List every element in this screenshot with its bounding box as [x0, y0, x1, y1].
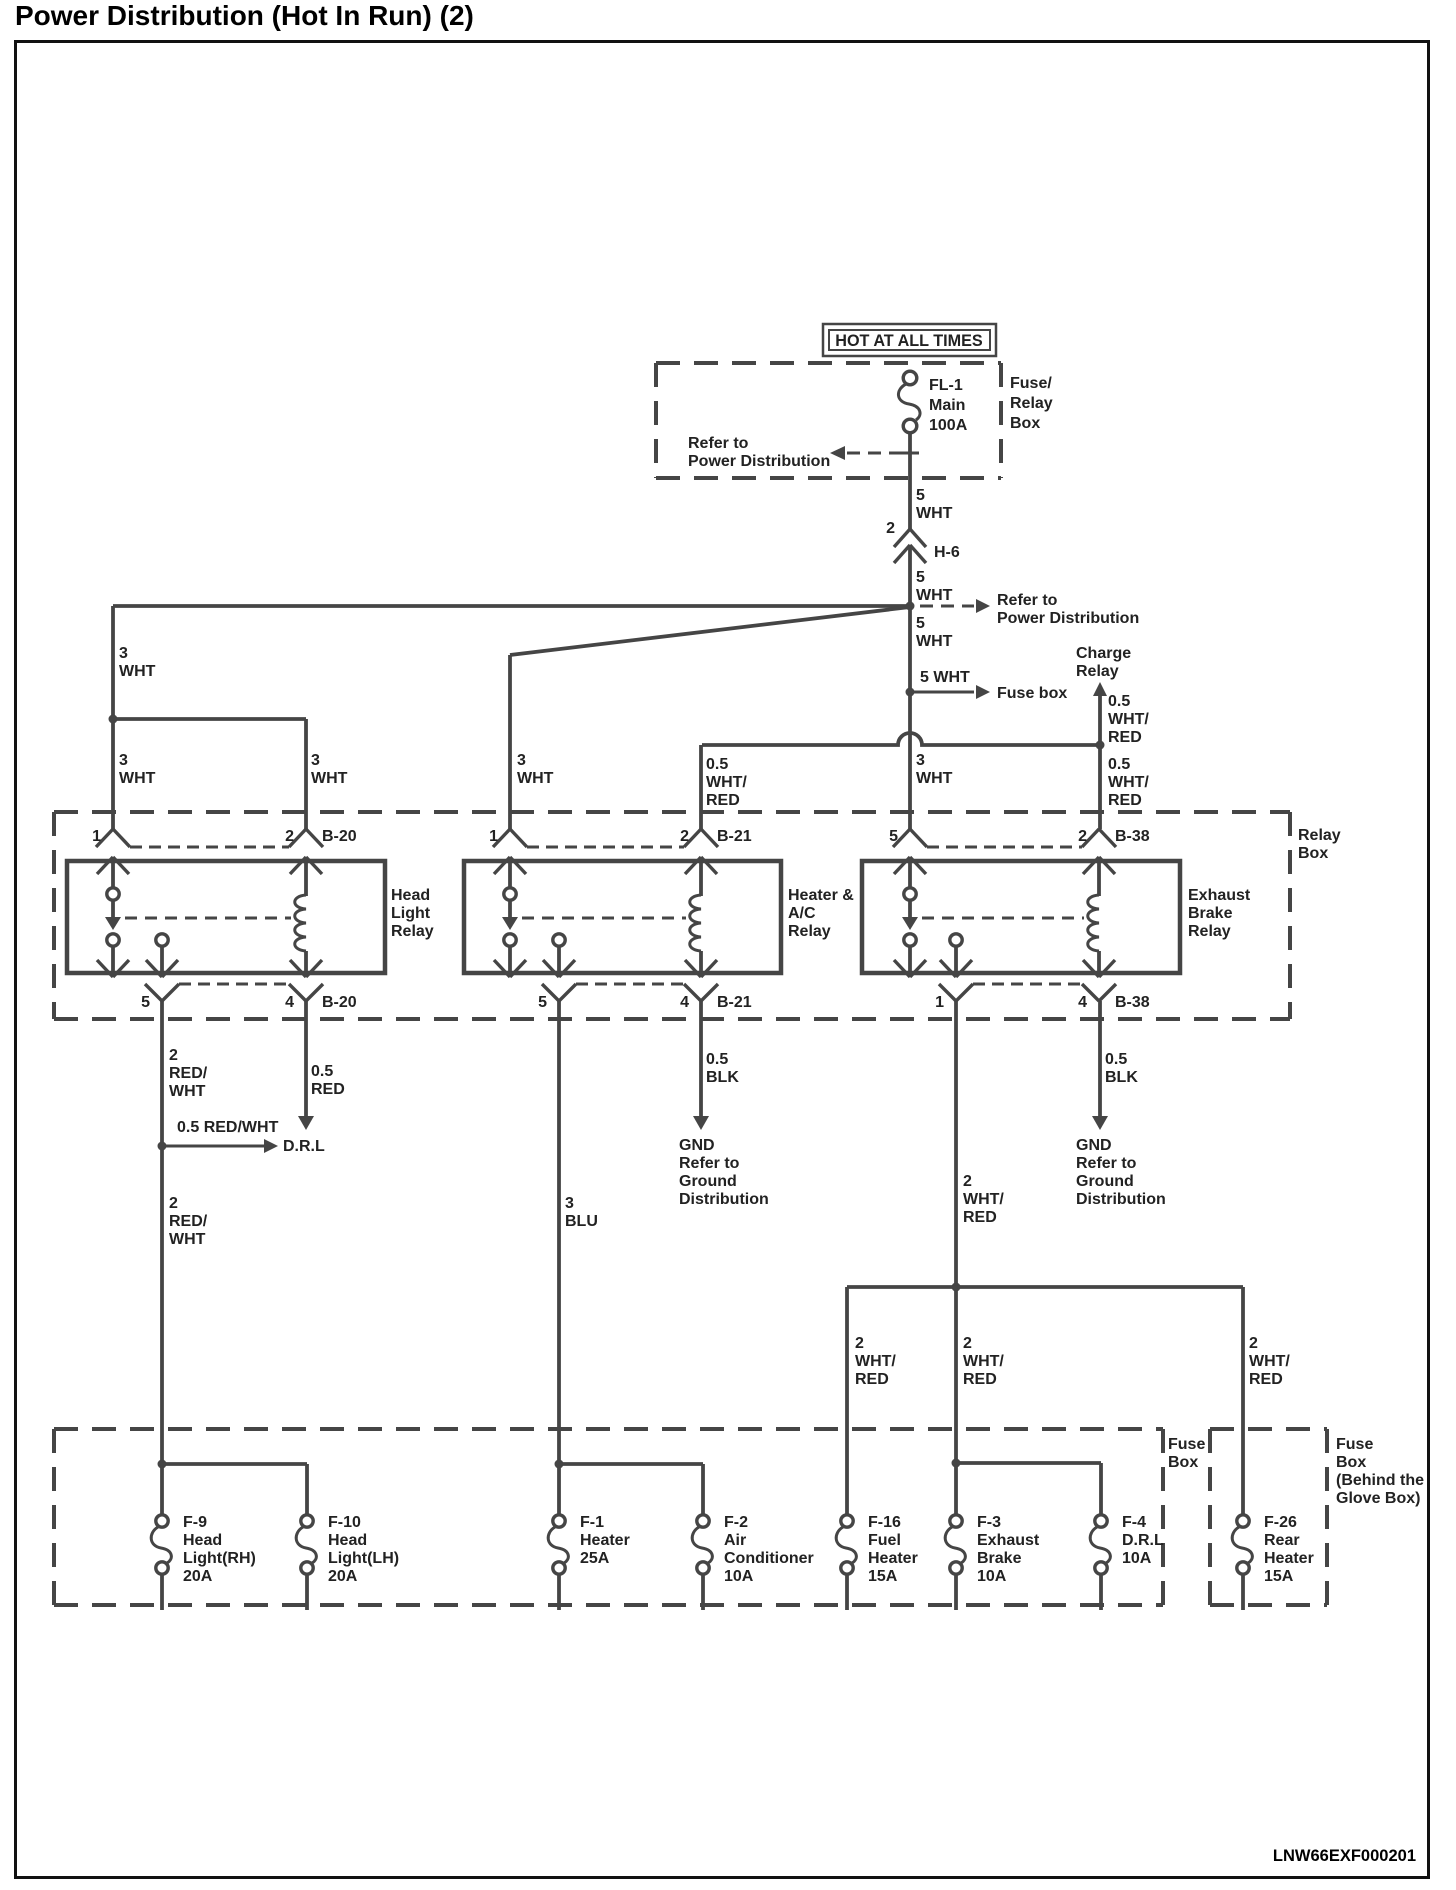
connector H-6 — [894, 529, 926, 563]
svg-text:D.R.L: D.R.L — [1122, 1532, 1164, 1549]
svg-text:GND: GND — [1076, 1137, 1112, 1154]
dashed arrow to power distribution (left) — [830, 446, 906, 460]
svg-text:20A: 20A — [328, 1568, 358, 1585]
svg-text:Main: Main — [929, 397, 965, 414]
relay B-20 pin 1 (top left) — [96, 829, 130, 847]
svg-text:GND: GND — [679, 1137, 715, 1154]
svg-text:2: 2 — [285, 828, 294, 845]
svg-text:WHT: WHT — [916, 587, 953, 604]
svg-text:0.5: 0.5 — [1108, 693, 1130, 710]
svg-text:A/C: A/C — [788, 905, 816, 922]
svg-text:RED: RED — [311, 1081, 345, 1098]
svg-text:RED: RED — [1108, 792, 1142, 809]
svg-text:Brake: Brake — [977, 1550, 1022, 1567]
svg-text:3: 3 — [517, 752, 526, 769]
label 3 WHT (left feeder) — [119, 645, 156, 680]
svg-text:Heater: Heater — [868, 1550, 918, 1567]
svg-text:4: 4 — [680, 994, 689, 1011]
wire B-20 pin5 down to fuse box — [160, 1001, 164, 1464]
svg-text:BLK: BLK — [706, 1069, 739, 1086]
wire B-38 pin4 to ground — [1098, 1001, 1102, 1117]
wire junction G to F-9 — [160, 1464, 164, 1514]
svg-text:Ground: Ground — [679, 1173, 737, 1190]
relay B-20 pin 4 (bottom right) — [289, 984, 323, 1001]
svg-text:Light(RH): Light(RH) — [183, 1550, 256, 1567]
svg-text:3: 3 — [565, 1195, 574, 1212]
svg-text:20A: 20A — [183, 1568, 213, 1585]
ground arrow B-38 — [1092, 1116, 1108, 1130]
relay B-20 coil — [290, 857, 322, 977]
svg-text:WHT: WHT — [916, 633, 953, 650]
fuse F-9 Head Light(RH) 20A — [151, 1515, 171, 1610]
svg-text:Relay: Relay — [1188, 923, 1231, 940]
label Charge Relay — [1076, 645, 1131, 680]
svg-text:(Behind the: (Behind the — [1336, 1472, 1424, 1489]
wire H-6 to junction A — [908, 545, 912, 606]
label F-1 — [580, 1514, 630, 1567]
label 0.5 RED — [311, 1063, 345, 1098]
label 3 BLU — [565, 1195, 598, 1230]
label 0.5 BLK (B-38) — [1105, 1051, 1138, 1086]
label F-16 — [868, 1514, 918, 1585]
svg-text:Head: Head — [328, 1532, 367, 1549]
wire B-21 pin1 vertical — [508, 655, 512, 829]
relay B-20 actuation dashed link — [125, 917, 291, 920]
fuse box label (behind glove box) — [1336, 1436, 1424, 1507]
svg-text:5: 5 — [916, 487, 925, 504]
svg-text:RED: RED — [706, 792, 740, 809]
svg-text:Relay: Relay — [1010, 395, 1053, 412]
svg-text:F-10: F-10 — [328, 1514, 361, 1531]
svg-text:Conditioner: Conditioner — [724, 1550, 814, 1567]
relay B-21 pin 1 (top left) — [493, 829, 527, 847]
svg-text:10A: 10A — [977, 1568, 1007, 1585]
label F-26 — [1264, 1514, 1314, 1585]
svg-text:B-38: B-38 — [1115, 828, 1150, 845]
svg-text:0.5: 0.5 — [706, 1051, 728, 1068]
label 2 RED/WHT (lower) — [169, 1195, 208, 1248]
svg-text:15A: 15A — [1264, 1568, 1294, 1585]
relay B-38 contact arm — [894, 857, 926, 977]
svg-text:100A: 100A — [929, 417, 968, 434]
relay B-38 pin 5 (top left) — [893, 829, 927, 847]
svg-text:10A: 10A — [724, 1568, 754, 1585]
svg-text:Air: Air — [724, 1532, 746, 1549]
svg-text:LNW66EXF000201: LNW66EXF000201 — [1273, 1847, 1416, 1865]
svg-text:0.5 RED/WHT: 0.5 RED/WHT — [177, 1119, 279, 1136]
svg-text:Power Distribution: Power Distribution — [997, 610, 1139, 627]
relay B-38 body box — [862, 861, 1180, 973]
arrow to charge relay — [1093, 682, 1107, 745]
svg-text:WHT: WHT — [119, 663, 156, 680]
relay B-38 coil — [1083, 857, 1115, 977]
fuse F-16 Fuel Heater 15A — [836, 1515, 856, 1610]
svg-text:Box: Box — [1298, 845, 1328, 862]
svg-text:25A: 25A — [580, 1550, 610, 1567]
svg-text:Heater: Heater — [1264, 1550, 1314, 1567]
svg-text:1: 1 — [92, 828, 101, 845]
arrow to D.R.L — [162, 1139, 278, 1153]
svg-text:0.5: 0.5 — [706, 756, 728, 773]
label F-10 — [328, 1514, 399, 1585]
wire B-38 pin1 down — [954, 1001, 958, 1287]
svg-text:WHT/: WHT/ — [706, 774, 747, 791]
svg-text:2: 2 — [1249, 1335, 1258, 1352]
svg-text:3: 3 — [119, 752, 128, 769]
svg-text:Heater &: Heater & — [788, 887, 854, 904]
svg-text:B-20: B-20 — [322, 828, 357, 845]
svg-text:15A: 15A — [868, 1568, 898, 1585]
fuse F-26 Rear Heater 15A — [1232, 1515, 1252, 1610]
wire FL-1 to H-6 — [908, 433, 912, 529]
connector row dashes bottom (B-20) — [179, 983, 289, 986]
connector row dashes top (B-20) — [130, 846, 289, 849]
GND refer to ground distribution (B-21) — [679, 1137, 769, 1208]
relay B-38 contact throw terminal — [940, 934, 972, 977]
relay B-21 actuation dashed link — [522, 917, 686, 920]
fuse box dashed border (behind glove box) — [1210, 1429, 1327, 1605]
label 0.5 WHT/RED (B-21 pin2) — [706, 756, 747, 809]
relay B-20 pin 2 (top right) — [289, 829, 323, 847]
svg-text:0.5: 0.5 — [1105, 1051, 1127, 1068]
svg-text:F-1: F-1 — [580, 1514, 604, 1531]
label F-2 — [724, 1514, 814, 1585]
svg-text:Exhaust: Exhaust — [1188, 887, 1251, 904]
junction C (charge relay tap) — [1096, 741, 1105, 750]
wire junction A to B-21 branch (diagonal) — [510, 607, 910, 655]
svg-text:BLU: BLU — [565, 1213, 598, 1230]
svg-text:1: 1 — [489, 828, 498, 845]
svg-text:RED: RED — [963, 1209, 997, 1226]
relay B-20 contact arm — [97, 857, 129, 977]
relay B-21 coil — [685, 857, 717, 977]
svg-text:2: 2 — [169, 1047, 178, 1064]
svg-text:2: 2 — [886, 520, 895, 537]
svg-text:RED: RED — [963, 1371, 997, 1388]
svg-text:WHT/: WHT/ — [963, 1353, 1004, 1370]
GND refer to ground distribution (B-38) — [1076, 1137, 1166, 1208]
svg-text:2: 2 — [1078, 828, 1087, 845]
wire B-21 pin2 / B-38 pin2 branch with hop — [702, 733, 1100, 745]
svg-text:3: 3 — [119, 645, 128, 662]
svg-text:B-21: B-21 — [717, 994, 752, 1011]
label 3 WHT (B-21 pin1) — [517, 752, 554, 787]
svg-text:5: 5 — [538, 994, 547, 1011]
svg-text:3: 3 — [916, 752, 925, 769]
svg-text:2: 2 — [963, 1173, 972, 1190]
svg-text:WHT: WHT — [311, 770, 348, 787]
relay B-38 pin 4 (bottom right) — [1082, 984, 1116, 1001]
relay B-21 contact throw terminal — [543, 934, 575, 977]
svg-text:RED/: RED/ — [169, 1213, 208, 1230]
relay B-21 contact arm — [494, 857, 526, 977]
svg-text:WHT/: WHT/ — [855, 1353, 896, 1370]
connector row dashes bottom (B-21) — [576, 983, 684, 986]
label 0.5 WHT/RED (charge relay) — [1108, 693, 1149, 746]
fusible link FL-1 Main 100A — [898, 371, 920, 433]
label FL-1 Main 100A — [929, 377, 968, 434]
label 3 WHT (B-20 pin1) — [119, 752, 156, 787]
wire junction I to F-3 — [954, 1463, 958, 1514]
arrowhead B-20 pin4 — [298, 1116, 314, 1130]
wire to F-2 — [559, 1464, 703, 1514]
svg-text:WHT: WHT — [169, 1231, 206, 1248]
svg-text:0.5: 0.5 — [1108, 756, 1130, 773]
label 2 RED/WHT (upper) — [169, 1047, 208, 1100]
refer to power distribution (right) text — [997, 592, 1139, 627]
wire to F-4 — [956, 1463, 1101, 1514]
label 2 WHT/RED (B-38 pin1) — [963, 1173, 1004, 1226]
fuse F-4 D.R.L 10A — [1090, 1515, 1110, 1610]
svg-text:Distribution: Distribution — [679, 1191, 769, 1208]
svg-text:Charge: Charge — [1076, 645, 1131, 662]
dashed arrow refer to power distribution (right) — [920, 599, 990, 613]
svg-text:Glove Box): Glove Box) — [1336, 1490, 1420, 1507]
svg-text:WHT/: WHT/ — [1108, 711, 1149, 728]
fuse/relay box dashed border — [656, 363, 1001, 478]
svg-text:D.R.L: D.R.L — [283, 1138, 325, 1155]
wire to B-21 pin 2 — [699, 745, 703, 829]
relay B-21 body box — [464, 861, 781, 973]
svg-text:Relay: Relay — [391, 923, 434, 940]
svg-text:5: 5 — [916, 615, 925, 632]
svg-text:5: 5 — [141, 994, 150, 1011]
wire junction A to B-20 branch (horizontal) — [113, 604, 910, 608]
junction D (B-20 split) — [109, 715, 118, 724]
relay B-38 pin 1 (bottom left) — [939, 984, 973, 1001]
label 5 WHT (below H-6) — [916, 569, 953, 604]
wire left feeder vertical — [111, 606, 115, 829]
wire tick at FL-1 arrow junction — [901, 452, 919, 455]
svg-text:F-4: F-4 — [1122, 1514, 1146, 1531]
label F-9 — [183, 1514, 256, 1585]
svg-text:Head: Head — [391, 887, 430, 904]
relay name label Exhaust Brake Relay — [1188, 887, 1251, 940]
svg-text:RED: RED — [855, 1371, 889, 1388]
svg-text:4: 4 — [285, 994, 294, 1011]
svg-text:3: 3 — [311, 752, 320, 769]
svg-text:Box: Box — [1010, 415, 1040, 432]
svg-text:Refer to: Refer to — [1076, 1155, 1137, 1172]
svg-text:2: 2 — [855, 1335, 864, 1352]
svg-text:Refer to: Refer to — [688, 435, 749, 452]
svg-text:BLK: BLK — [1105, 1069, 1138, 1086]
junction I (exhaust brake / DRL split) — [952, 1459, 961, 1468]
label 2 WHT/RED (F-3 branch) — [963, 1335, 1004, 1388]
svg-text:Rear: Rear — [1264, 1532, 1300, 1549]
label 3 WHT (B-38 feed) — [916, 752, 953, 787]
junction E (D.R.L tap) — [158, 1142, 167, 1151]
wire down to F-26 — [1241, 1287, 1245, 1514]
svg-text:Power Distribution (Hot In Run: Power Distribution (Hot In Run) (2) — [15, 0, 474, 31]
fuse box label (main) — [1168, 1436, 1205, 1471]
svg-text:2: 2 — [963, 1335, 972, 1352]
fuse box dashed border (main) — [54, 1429, 1163, 1605]
svg-text:2: 2 — [169, 1195, 178, 1212]
svg-text:Fuel: Fuel — [868, 1532, 901, 1549]
svg-text:Fuse/: Fuse/ — [1010, 375, 1052, 392]
svg-text:1: 1 — [935, 994, 944, 1011]
connector row dashes top (B-38) — [927, 846, 1082, 849]
svg-text:Exhaust: Exhaust — [977, 1532, 1040, 1549]
svg-text:FL-1: FL-1 — [929, 377, 963, 394]
wire junction H to F-1 — [557, 1464, 561, 1514]
fuse F-2 Air Conditioner 10A — [692, 1515, 712, 1610]
svg-text:Heater: Heater — [580, 1532, 630, 1549]
svg-text:Light: Light — [391, 905, 431, 922]
fuse F-10 Head Light(LH) 20A — [296, 1515, 316, 1610]
svg-text:B-21: B-21 — [717, 828, 752, 845]
svg-text:Fuse: Fuse — [1168, 1436, 1205, 1453]
wire junction A to junction B — [908, 606, 912, 692]
refer to power distribution (left) text — [688, 435, 830, 470]
svg-text:0.5: 0.5 — [311, 1063, 333, 1080]
label F-3 — [977, 1514, 1040, 1585]
svg-text:F-3: F-3 — [977, 1514, 1001, 1531]
wire B-20 pin2 branch — [113, 719, 306, 829]
label 0.5 BLK (B-21) — [706, 1051, 739, 1086]
relay box label — [1298, 827, 1341, 862]
relay B-21 pin 2 (top right) — [684, 829, 718, 847]
svg-text:Power Distribution: Power Distribution — [688, 453, 830, 470]
svg-text:Fuse: Fuse — [1336, 1436, 1373, 1453]
svg-text:5 WHT: 5 WHT — [920, 669, 970, 686]
junction H (heater/AC split) — [555, 1460, 564, 1469]
svg-text:Fuse box: Fuse box — [997, 685, 1067, 702]
wire down to F-16 — [845, 1287, 849, 1514]
svg-text:RED: RED — [1108, 729, 1142, 746]
relay B-21 pin 5 (bottom left) — [542, 984, 576, 1001]
svg-text:B-20: B-20 — [322, 994, 357, 1011]
relay B-21 pin 4 (bottom right) — [684, 984, 718, 1001]
svg-text:F-9: F-9 — [183, 1514, 207, 1531]
wire to F-10 — [162, 1464, 307, 1514]
svg-text:Ground: Ground — [1076, 1173, 1134, 1190]
wire B-38 pin1 to F-3 junction — [954, 1287, 958, 1463]
svg-text:Relay: Relay — [1076, 663, 1119, 680]
svg-text:F-16: F-16 — [868, 1514, 901, 1531]
ground arrow B-21 — [693, 1116, 709, 1130]
svg-text:B-38: B-38 — [1115, 994, 1150, 1011]
svg-text:RED/: RED/ — [169, 1065, 208, 1082]
wire to B-38 pin 2 — [1098, 745, 1102, 829]
svg-text:WHT/: WHT/ — [1108, 774, 1149, 791]
svg-text:WHT/: WHT/ — [1249, 1353, 1290, 1370]
svg-text:Relay: Relay — [1298, 827, 1341, 844]
connector row dashes top (B-21) — [527, 846, 684, 849]
svg-text:Distribution: Distribution — [1076, 1191, 1166, 1208]
svg-text:10A: 10A — [1122, 1550, 1152, 1567]
svg-text:5: 5 — [916, 569, 925, 586]
wire B-21 pin4 to ground — [699, 1001, 703, 1117]
wire B-21 pin5 down to fuse box — [557, 1001, 561, 1464]
svg-text:Relay: Relay — [788, 923, 831, 940]
svg-text:F-2: F-2 — [724, 1514, 748, 1531]
svg-text:WHT/: WHT/ — [963, 1191, 1004, 1208]
arrow to fuse box — [910, 685, 990, 699]
svg-text:RED: RED — [1249, 1371, 1283, 1388]
svg-text:5: 5 — [889, 828, 898, 845]
svg-text:WHT: WHT — [916, 770, 953, 787]
svg-text:WHT: WHT — [169, 1083, 206, 1100]
svg-text:Head: Head — [183, 1532, 222, 1549]
svg-text:H-6: H-6 — [934, 544, 960, 561]
svg-text:4: 4 — [1078, 994, 1087, 1011]
relay B-38 pin 2 (top right) — [1082, 829, 1116, 847]
label 5 WHT (above H-6) — [916, 487, 953, 522]
svg-text:HOT AT ALL TIMES: HOT AT ALL TIMES — [835, 332, 983, 350]
fuse/relay box label — [1010, 375, 1053, 432]
relay B-38 actuation dashed link — [922, 917, 1084, 920]
svg-text:Box: Box — [1336, 1454, 1366, 1471]
junction F (fuel heater / rear heater split) — [952, 1283, 961, 1292]
wire 1287 horizontal run — [847, 1285, 1243, 1289]
label 2 WHT/RED (F-16 branch) — [855, 1335, 896, 1388]
junction B — [906, 688, 915, 697]
svg-text:Box: Box — [1168, 1454, 1198, 1471]
svg-text:Refer to: Refer to — [997, 592, 1058, 609]
label 0.5 WHT/RED (B-38 pin2) — [1108, 756, 1149, 809]
fuse F-3 Exhaust Brake 10A — [945, 1515, 965, 1610]
wire B-20 pin4 to D.R.L arrow — [304, 1001, 308, 1117]
relay B-20 contact throw terminal — [146, 934, 178, 977]
wire junction B to B-38 pin 5 — [908, 692, 912, 829]
connector row dashes bottom (B-38) — [973, 983, 1082, 986]
svg-text:WHT: WHT — [119, 770, 156, 787]
relay B-20 pin 5 (bottom left) — [145, 984, 179, 1001]
relay name label Head Light Relay — [391, 887, 434, 940]
relay name label Heater & A/C Relay — [788, 887, 854, 940]
svg-text:WHT: WHT — [916, 505, 953, 522]
label F-4 — [1122, 1514, 1164, 1567]
svg-text:Refer to: Refer to — [679, 1155, 740, 1172]
label 2 WHT/RED (F-26 branch) — [1249, 1335, 1290, 1388]
HOT AT ALL TIMES label box — [823, 324, 996, 356]
svg-text:F-26: F-26 — [1264, 1514, 1297, 1531]
relay B-20 body box — [67, 861, 385, 973]
svg-text:Brake: Brake — [1188, 905, 1233, 922]
svg-text:2: 2 — [680, 828, 689, 845]
label 3 WHT (B-20 pin2) — [311, 752, 348, 787]
svg-text:WHT: WHT — [517, 770, 554, 787]
svg-text:Light(LH): Light(LH) — [328, 1550, 399, 1567]
junction G (headlight split) — [158, 1460, 167, 1469]
fuse F-1 Heater 25A — [548, 1515, 568, 1610]
relay box dashed border — [54, 812, 1290, 1019]
label 5 WHT (below junction A) — [916, 615, 953, 650]
junction A — [906, 602, 915, 611]
